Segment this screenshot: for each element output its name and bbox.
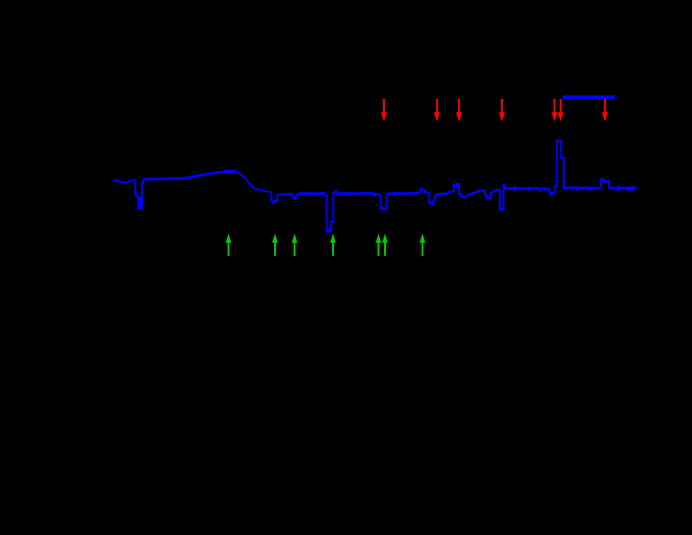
green event arrow G6 (up) — [382, 234, 388, 256]
green event arrow G5 (up) — [376, 234, 382, 256]
green event arrow G2 (up) — [272, 234, 278, 256]
green event arrow G7 (up) — [420, 234, 426, 256]
red event arrow R1 (down) — [381, 99, 387, 122]
red event arrow R6 (down) — [558, 99, 564, 122]
green event arrow G4 (up) — [330, 234, 336, 256]
red event arrow R4 (down) — [499, 99, 505, 122]
green event arrow G3 (up) — [292, 234, 298, 256]
signal trace (blue) — [114, 141, 637, 232]
red event arrow R3 (down) — [456, 99, 462, 122]
red event arrow R2 (down) — [434, 99, 440, 122]
green event arrow G1 (up) — [226, 234, 232, 256]
blue interval bar (top right) — [563, 95, 615, 99]
red event arrow R7 (down) — [602, 99, 608, 122]
red event arrow R5 (down) — [552, 99, 558, 122]
